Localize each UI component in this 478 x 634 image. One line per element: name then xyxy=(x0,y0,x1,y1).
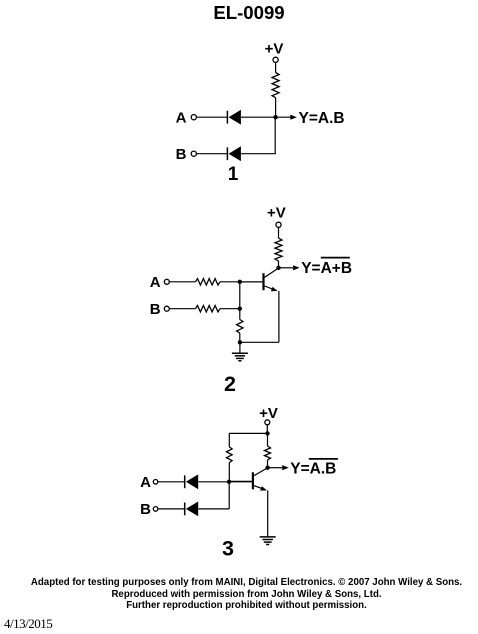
svg-text:B: B xyxy=(150,301,161,318)
svg-text:+V: +V xyxy=(265,41,284,58)
svg-text:Y=A.B: Y=A.B xyxy=(290,460,336,477)
svg-text:1: 1 xyxy=(228,164,239,185)
svg-text:+V: +V xyxy=(267,205,286,222)
svg-text:+V: +V xyxy=(259,405,278,422)
svg-text:Y=A+B: Y=A+B xyxy=(301,260,352,277)
svg-text:A: A xyxy=(140,474,151,491)
svg-text:A: A xyxy=(176,109,187,126)
svg-text:B: B xyxy=(140,501,151,518)
svg-text:A: A xyxy=(150,274,161,291)
svg-text:Y=A.B: Y=A.B xyxy=(299,110,345,127)
svg-text:2: 2 xyxy=(224,372,236,396)
svg-text:B: B xyxy=(176,146,187,163)
svg-text:3: 3 xyxy=(222,536,234,560)
